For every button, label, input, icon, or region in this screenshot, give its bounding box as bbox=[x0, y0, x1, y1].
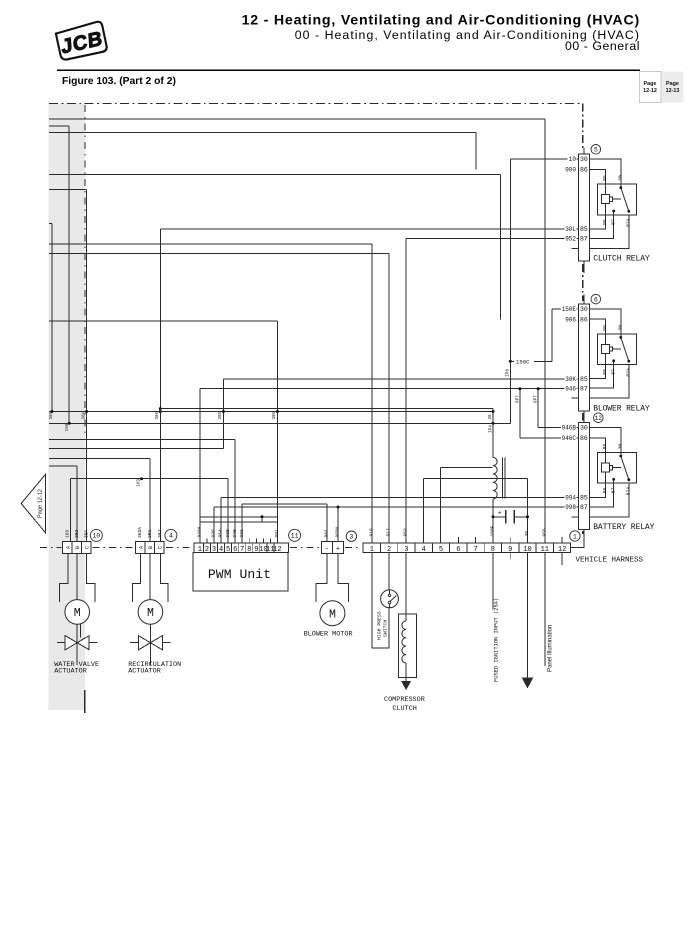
harness pin 10 riser wire 30 bbox=[527, 479, 529, 543]
svg-text:4: 4 bbox=[422, 546, 426, 554]
high pressure switch S1 loop bbox=[372, 553, 389, 649]
svg-text:10: 10 bbox=[92, 533, 100, 540]
svg-text:944A: 944A bbox=[197, 526, 203, 537]
svg-text:946C: 946C bbox=[562, 435, 577, 442]
PWM unit U1 box bbox=[193, 553, 288, 591]
wire link PWM pin1 to pin12 lower bbox=[200, 521, 278, 523]
svg-text:86: 86 bbox=[602, 175, 608, 181]
harness pin 2 drop bbox=[388, 553, 390, 590]
harness pin 10 ground wire bbox=[527, 553, 529, 678]
wire 150C riser bbox=[509, 361, 511, 423]
svg-text:A: A bbox=[66, 546, 72, 549]
svg-text:30N: 30N bbox=[273, 411, 277, 419]
svg-text:Page: Page bbox=[644, 81, 657, 87]
battery relay K3 pin 30 internal wire bbox=[589, 427, 621, 456]
connector 10 reference designator bbox=[90, 529, 102, 541]
choke feed wire bbox=[492, 409, 494, 458]
recirculation actuator M3 valve symbol bbox=[149, 624, 151, 665]
wire 946 run blower relay 87 to PWM pin 1 bbox=[200, 388, 578, 390]
svg-text:948: 948 bbox=[232, 529, 238, 538]
node 150C label bbox=[514, 358, 534, 365]
svg-text:-: - bbox=[325, 545, 329, 553]
PWM pin 4 riser bbox=[220, 498, 222, 543]
wire from battery relay to vehicle harness pin 12 bbox=[571, 529, 584, 547]
wire 906 top run bbox=[49, 174, 501, 176]
svg-text:11: 11 bbox=[291, 533, 299, 540]
battery relay K3 connector strip bbox=[579, 422, 590, 529]
battery relay K3 coil bbox=[602, 463, 610, 472]
wire 946C drop bbox=[519, 389, 521, 438]
page tab 12-13 bbox=[662, 72, 684, 103]
water valve actuator M2 motor bracket bbox=[60, 553, 68, 602]
svg-text:150E: 150E bbox=[562, 306, 577, 313]
clutch relay K1 pin 86 internal wire bbox=[589, 169, 605, 194]
svg-text:30A: 30A bbox=[83, 529, 89, 538]
harness pin ticks below bbox=[509, 553, 511, 560]
svg-text:30: 30 bbox=[580, 425, 588, 432]
svg-text:954: 954 bbox=[218, 529, 224, 538]
svg-text:A: A bbox=[139, 546, 145, 549]
blower relay K2 body bbox=[598, 334, 637, 365]
svg-text:IP4: IP4 bbox=[489, 425, 494, 433]
svg-text:M: M bbox=[74, 607, 81, 620]
svg-text:12-13: 12-13 bbox=[666, 88, 680, 94]
wire 30 bus upper bbox=[49, 411, 493, 413]
svg-text:955: 955 bbox=[542, 528, 548, 537]
svg-text:00 - General: 00 - General bbox=[565, 39, 640, 53]
battery relay K3 switch contact bbox=[621, 456, 629, 480]
svg-text:201: 201 bbox=[147, 529, 153, 538]
wire 946C into battery relay 86 bbox=[520, 437, 579, 439]
clutch relay K1 spare pin stub bbox=[572, 247, 579, 249]
harness boundary dash-dot top bbox=[49, 103, 583, 105]
blower relay K2 pin 86 internal wire bbox=[589, 319, 605, 344]
svg-text:916: 916 bbox=[368, 528, 374, 537]
svg-text:998: 998 bbox=[565, 504, 576, 511]
wire 169 run bbox=[71, 478, 229, 480]
svg-text:+: + bbox=[498, 510, 502, 517]
svg-text:150C: 150C bbox=[516, 359, 530, 366]
svg-text:87A: 87A bbox=[626, 368, 632, 377]
svg-text:10: 10 bbox=[569, 156, 577, 163]
svg-text:8P7: 8P7 bbox=[534, 395, 539, 403]
svg-text:12: 12 bbox=[595, 415, 603, 422]
header rule bbox=[57, 70, 640, 71]
clutch relay K1 coil bbox=[602, 195, 610, 204]
blower relay K2 coil bbox=[602, 345, 610, 354]
wire link PWM pin1 to pin12 upper bbox=[200, 516, 278, 518]
svg-text:30: 30 bbox=[580, 156, 588, 163]
svg-text:30: 30 bbox=[489, 414, 493, 420]
svg-text:85: 85 bbox=[602, 219, 608, 225]
svg-text:85: 85 bbox=[602, 488, 608, 494]
panel illumination wire bbox=[544, 553, 546, 667]
cab band lower boundary tick bbox=[84, 690, 86, 713]
junction dots bbox=[50, 410, 53, 413]
svg-text:30: 30 bbox=[524, 531, 530, 537]
svg-text:Panel Illumination: Panel Illumination bbox=[548, 625, 554, 672]
svg-text:87: 87 bbox=[580, 504, 588, 511]
svg-text:BATTERY RELAY: BATTERY RELAY bbox=[593, 523, 654, 532]
blower relay K2 reference designator bbox=[591, 294, 601, 304]
svg-text:900: 900 bbox=[565, 167, 576, 174]
clutch relay K1 pin 85 internal wire bbox=[589, 204, 605, 229]
wire 30 left drop bbox=[49, 222, 52, 224]
JCB logo bbox=[55, 21, 107, 61]
battery relay K3 pin 85 internal wire bbox=[589, 472, 605, 497]
wire 994 run battery relay 85 to PWM pin 4 bbox=[221, 497, 579, 499]
svg-text:30: 30 bbox=[618, 175, 624, 181]
clutch relay K1 switch contact bbox=[621, 188, 629, 212]
wire 150C run bbox=[510, 360, 552, 362]
svg-text:85: 85 bbox=[580, 376, 588, 383]
svg-text:952: 952 bbox=[403, 528, 409, 537]
wire 998 run battery relay 87 to PWM pin 3 bbox=[214, 506, 579, 508]
svg-text:952: 952 bbox=[565, 236, 576, 243]
capacitor left lead bbox=[493, 516, 506, 518]
clutch relay K1 87A return bbox=[589, 215, 629, 249]
svg-text:946B: 946B bbox=[562, 425, 577, 432]
clutch relay K1 body bbox=[598, 184, 637, 215]
blower relay K2 pin 30 internal wire bbox=[589, 309, 621, 338]
blower motor - drop bbox=[326, 504, 328, 542]
svg-text:87: 87 bbox=[610, 369, 616, 375]
svg-text:30: 30 bbox=[580, 306, 588, 313]
harness boundary dashed left vertical bbox=[84, 105, 86, 433]
svg-text:365A: 365A bbox=[137, 527, 143, 538]
PWM pin 3 riser bbox=[213, 507, 215, 543]
svg-text:COMPRESSOR: COMPRESSOR bbox=[384, 696, 425, 704]
wire 958A drop to blower motor + bbox=[337, 507, 339, 542]
svg-text:30K: 30K bbox=[565, 376, 576, 383]
compressor clutch ground bbox=[401, 681, 411, 690]
blower relay K2 bbox=[561, 294, 650, 417]
page pointer arrow Page 12-12 bbox=[21, 474, 45, 533]
svg-text:C: C bbox=[158, 546, 164, 549]
svg-text:M: M bbox=[329, 608, 336, 621]
svg-text:B: B bbox=[75, 546, 81, 549]
vehicle harness connector strip bbox=[363, 525, 644, 565]
battery relay K3 body bbox=[598, 453, 637, 484]
svg-text:981: 981 bbox=[274, 529, 280, 538]
battery relay K3 spare pin stub bbox=[572, 516, 579, 518]
capacitor right lead bbox=[514, 516, 527, 518]
clutch relay K1 bbox=[564, 145, 650, 274]
svg-text:86: 86 bbox=[602, 444, 608, 450]
svg-text:30J: 30J bbox=[157, 529, 163, 538]
wire 30J riser to recirculation actuator bbox=[159, 229, 161, 542]
blower relay K2 connector strip bbox=[579, 304, 590, 411]
svg-text:85: 85 bbox=[580, 495, 588, 502]
water valve actuator M2 motor center wire bbox=[76, 553, 78, 600]
choke lower lead to harness pin 8 bbox=[492, 499, 494, 543]
svg-text:87: 87 bbox=[580, 236, 588, 243]
svg-text:958A: 958A bbox=[335, 526, 341, 537]
svg-text:5: 5 bbox=[439, 546, 443, 554]
wire 30 link harness pin 4 to pin 10 bbox=[423, 478, 527, 480]
svg-text:4: 4 bbox=[169, 533, 173, 540]
wire 952 drop to vehicle harness pin 3 bbox=[405, 238, 407, 543]
svg-text:PWM Unit: PWM Unit bbox=[208, 567, 271, 582]
water valve actuator M2 motor M1 bbox=[65, 600, 90, 625]
connector 3 reference designator bbox=[346, 531, 356, 541]
recirculation actuator M3 motor center wire bbox=[149, 553, 151, 600]
svg-text:86: 86 bbox=[602, 325, 608, 331]
svg-text:3: 3 bbox=[349, 534, 353, 541]
svg-text:30: 30 bbox=[618, 444, 624, 450]
svg-text:926: 926 bbox=[211, 529, 217, 538]
recirculation actuator M3 connector bbox=[128, 527, 181, 676]
svg-text:930: 930 bbox=[225, 529, 231, 538]
battery relay K3 pin 86 internal wire bbox=[589, 438, 605, 463]
svg-text:C: C bbox=[85, 546, 91, 549]
recirculation actuator M3 motor M1 bbox=[138, 600, 163, 625]
svg-text:30: 30 bbox=[618, 325, 624, 331]
svg-text:85: 85 bbox=[580, 226, 588, 233]
wire 10 riser bbox=[509, 159, 511, 361]
svg-text:FUSED IGNITION INPUT (25A): FUSED IGNITION INPUT (25A) bbox=[493, 598, 499, 682]
wire 981 run to PWM pin 12 bbox=[49, 320, 277, 322]
svg-text:994: 994 bbox=[565, 495, 576, 502]
connector 1 reference designator bbox=[570, 531, 580, 541]
svg-text:87: 87 bbox=[580, 385, 588, 392]
wire 150E riser bbox=[551, 309, 553, 362]
svg-text:CLUTCH RELAY: CLUTCH RELAY bbox=[593, 255, 650, 264]
svg-text:VEHICLE HARNESS: VEHICLE HARNESS bbox=[576, 557, 644, 565]
wire 30K lower run bbox=[49, 448, 223, 450]
wire 900 top run bbox=[49, 132, 476, 134]
wire 30 link to suppression choke bbox=[160, 408, 493, 410]
clutch relay K1 pin 30 internal wire bbox=[589, 159, 621, 188]
wire 169 drop to water valve pin A bbox=[70, 479, 72, 542]
blower relay K2 pin 87 internal wire bbox=[589, 361, 613, 388]
svg-text:906: 906 bbox=[565, 316, 576, 323]
svg-text:IP6: IP6 bbox=[506, 369, 511, 377]
clutch relay K1 reference designator bbox=[591, 145, 601, 155]
PWM pin 7 riser bbox=[241, 504, 243, 543]
page tab 12-12 bbox=[640, 72, 684, 103]
blower relay K2 switch contact bbox=[621, 337, 629, 361]
svg-text:87: 87 bbox=[610, 219, 616, 225]
wire 30L run to clutch relay 85 bbox=[160, 228, 578, 230]
wire 948 run to PWM pin 6 bbox=[49, 438, 235, 440]
blower motor bracket bbox=[316, 553, 327, 602]
wire 150E into blower relay 30 bbox=[552, 308, 577, 310]
wire 961 run PWM pin 7 to blower motor - bbox=[242, 503, 327, 505]
svg-text:5: 5 bbox=[594, 147, 598, 154]
wire 150 feed upper corner bbox=[49, 125, 69, 127]
svg-text:202: 202 bbox=[74, 529, 80, 538]
link tick bbox=[261, 517, 263, 522]
high pressure switch body bbox=[381, 590, 399, 608]
svg-text:Figure 103. (Part 2 of 2): Figure 103. (Part 2 of 2) bbox=[62, 76, 176, 87]
clutch relay K1 connector strip bbox=[579, 154, 590, 261]
svg-text:12 - Heating, Ventilating and: 12 - Heating, Ventilating and Air-Condit… bbox=[242, 13, 640, 29]
wire 150 bus lower bbox=[49, 422, 510, 424]
wire 946B drop bbox=[537, 389, 539, 428]
choke core bars bbox=[502, 457, 504, 498]
svg-text:917: 917 bbox=[386, 528, 392, 537]
blower relay K2 87A return bbox=[589, 365, 629, 399]
water valve actuator M2 valve symbol bbox=[76, 624, 78, 665]
svg-text:HIGH PRESS: HIGH PRESS bbox=[377, 611, 383, 640]
svg-text:B: B bbox=[148, 546, 154, 549]
svg-text:12-12: 12-12 bbox=[643, 88, 657, 94]
blower relay K2 pin 85 internal wire bbox=[589, 354, 605, 379]
svg-text:6: 6 bbox=[594, 296, 598, 303]
wire 946B into battery relay 30 bbox=[538, 426, 579, 428]
cab panel shaded band bbox=[49, 104, 86, 711]
svg-text:85: 85 bbox=[602, 369, 608, 375]
svg-text:Page: Page bbox=[666, 81, 679, 87]
header title text bbox=[242, 13, 640, 54]
svg-text:ACTUATOR: ACTUATOR bbox=[128, 667, 161, 675]
svg-text:BLOWER RELAY: BLOWER RELAY bbox=[593, 404, 650, 413]
connector 4 reference designator bbox=[165, 529, 177, 541]
svg-text:86: 86 bbox=[580, 167, 588, 174]
connector 11 reference designator bbox=[289, 529, 301, 541]
recirculation actuator M3 motor bracket bbox=[133, 553, 141, 602]
svg-text:7: 7 bbox=[473, 546, 477, 554]
suppression choke L1 bbox=[493, 457, 497, 498]
wire 30A run to water valve bbox=[49, 188, 87, 190]
svg-text:87A: 87A bbox=[626, 487, 632, 496]
svg-text:1: 1 bbox=[573, 533, 577, 540]
wire link harness pin 5 to choke tap bbox=[441, 466, 493, 468]
harness pin 4 riser bbox=[422, 479, 424, 543]
svg-text:6: 6 bbox=[456, 546, 460, 554]
harness boundary dash-dot right vertical bbox=[582, 104, 584, 535]
water valve stem second line bbox=[80, 623, 82, 638]
battery relay K3 bbox=[561, 413, 655, 548]
PWM pin 1 riser bbox=[199, 389, 201, 543]
compressor clutch coil Y1 bbox=[405, 553, 407, 622]
svg-text:SWITCH: SWITCH bbox=[383, 620, 389, 637]
svg-text:Page 12-12: Page 12-12 bbox=[38, 489, 44, 518]
blower motor M4 bbox=[320, 601, 345, 626]
PWM unused pin ticks bbox=[206, 538, 208, 543]
svg-text:+: + bbox=[336, 545, 340, 553]
clutch relay K1 pin 87 internal wire bbox=[589, 211, 613, 238]
svg-text:BLOWER MOTOR: BLOWER MOTOR bbox=[304, 630, 353, 638]
battery relay K3 reference designator bbox=[594, 413, 604, 423]
blower relay K2 spare pin stub bbox=[572, 397, 579, 399]
svg-text:86: 86 bbox=[580, 435, 588, 442]
wire 955 panel illumination top run bbox=[49, 118, 545, 120]
battery relay K3 pin 87 internal wire bbox=[589, 479, 613, 506]
svg-text:8P7: 8P7 bbox=[515, 395, 520, 403]
svg-text:M: M bbox=[147, 607, 154, 620]
svg-text:921: 921 bbox=[239, 529, 245, 538]
wire 30K run to blower relay 85 bbox=[223, 378, 577, 380]
blower motor connector bbox=[304, 526, 357, 638]
svg-text:946: 946 bbox=[565, 385, 576, 392]
svg-text:87: 87 bbox=[610, 488, 616, 494]
svg-text:961: 961 bbox=[324, 529, 330, 538]
harness unused pin ticks above bbox=[457, 537, 459, 543]
svg-text:169: 169 bbox=[65, 529, 71, 538]
svg-text:87A: 87A bbox=[626, 218, 632, 227]
water valve actuator M2 connector bbox=[54, 529, 102, 675]
svg-text:30L: 30L bbox=[565, 226, 576, 233]
wire 10 into clutch relay 30 bbox=[510, 158, 578, 160]
svg-text:ACTUATOR: ACTUATOR bbox=[54, 667, 87, 675]
harness pin 5 riser bbox=[440, 467, 442, 543]
wire 30K riser bbox=[222, 379, 224, 448]
capacitor plates bbox=[505, 510, 507, 523]
harness boundary dash-dot bottom row bbox=[40, 547, 362, 549]
wire 916 run to vehicle harness pin 1 bbox=[49, 243, 372, 245]
wire 201 run to recirculation actuator bbox=[49, 458, 150, 460]
wire 202 run to water valve actuator bbox=[49, 465, 77, 467]
wire 952 run to clutch relay 87 bbox=[406, 237, 578, 239]
svg-text:CLUTCH: CLUTCH bbox=[392, 705, 416, 713]
svg-text:86: 86 bbox=[580, 316, 588, 323]
fused ignition input wire bbox=[492, 553, 494, 610]
battery relay K3 87A return bbox=[589, 483, 629, 517]
svg-text:150F: 150F bbox=[490, 525, 496, 536]
ground symbol bbox=[522, 677, 534, 688]
wire 917 run to vehicle harness pin 2 bbox=[49, 252, 389, 254]
PWM unit connector strip bbox=[193, 526, 301, 591]
wire 930 drop to PWM pin 5 bbox=[227, 479, 229, 543]
